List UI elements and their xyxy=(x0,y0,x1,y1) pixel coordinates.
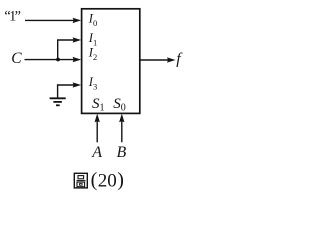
wire "1" to I0 xyxy=(25,19,75,21)
svg-text:20: 20 xyxy=(98,171,117,192)
svg-text:C: C xyxy=(11,50,22,67)
caption glyph 圖 xyxy=(74,173,87,188)
wire output f xyxy=(140,59,169,61)
wire C to I2 xyxy=(25,59,75,61)
svg-text:): ) xyxy=(117,169,124,191)
mux box U1 xyxy=(82,9,140,114)
svg-text:A: A xyxy=(91,144,102,161)
wire B to S0 xyxy=(121,121,123,143)
svg-text:“1”: “1” xyxy=(4,9,21,25)
wire C branch to I1 xyxy=(57,39,75,41)
wire C branch vertical xyxy=(57,40,59,60)
junction dot on C wire xyxy=(56,58,60,62)
svg-text:B: B xyxy=(117,144,127,161)
wire A to S1 xyxy=(96,121,98,143)
wire ground to I3 xyxy=(57,84,75,86)
svg-text:(: ( xyxy=(91,169,98,191)
ground xyxy=(50,84,66,105)
